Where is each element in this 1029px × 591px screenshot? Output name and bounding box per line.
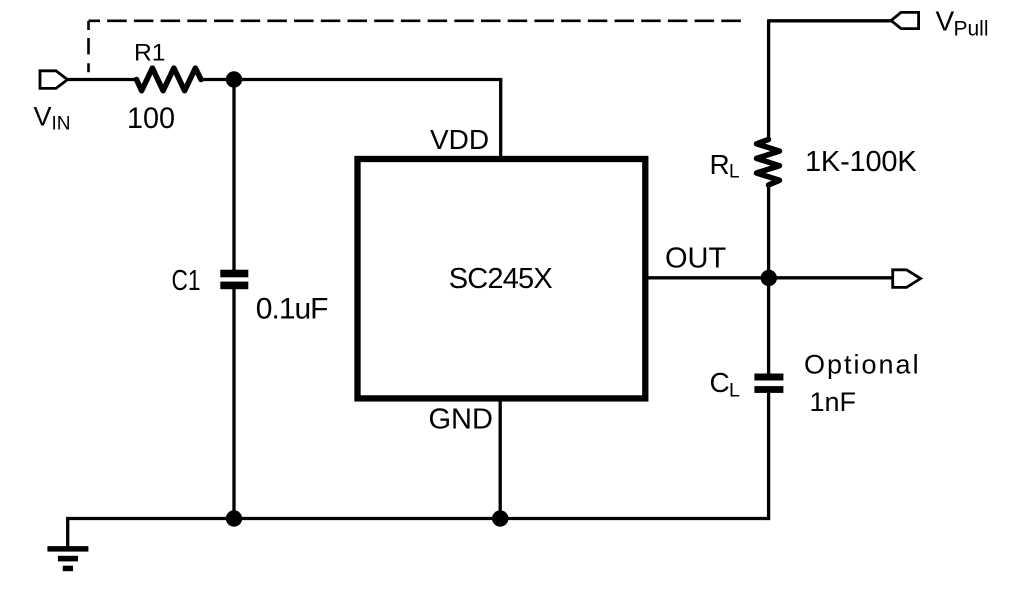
svg-text:V: V [34,102,52,132]
svg-text:SC245X: SC245X [449,263,553,295]
svg-text:1K-100K: 1K-100K [805,146,917,178]
svg-text:IN: IN [52,114,71,135]
svg-text:OUT: OUT [665,242,727,274]
svg-text:V: V [936,6,955,37]
svg-text:Optional: Optional [804,349,921,379]
svg-text:C: C [710,367,730,398]
svg-text:GND: GND [429,403,493,435]
svg-text:R1: R1 [134,40,166,67]
svg-text:C1: C1 [172,265,201,297]
svg-text:VDD: VDD [430,124,489,155]
svg-text:100: 100 [127,102,175,135]
svg-text:R: R [710,149,730,180]
svg-text:0.1uF: 0.1uF [256,293,328,326]
svg-text:L: L [729,162,740,183]
svg-text:1nF: 1nF [810,387,857,417]
svg-text:Pull: Pull [954,18,989,41]
svg-text:L: L [729,379,740,401]
